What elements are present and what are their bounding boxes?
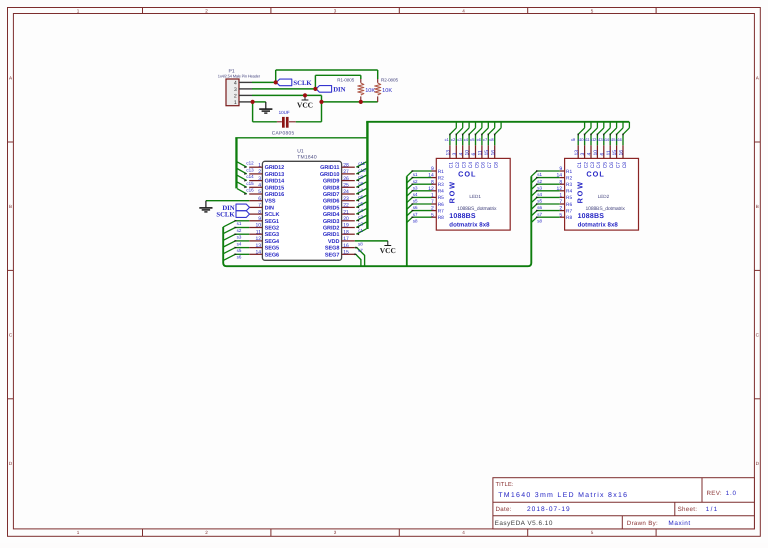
svg-text:VDD: VDD [328,239,340,245]
svg-text:GRID8: GRID8 [323,185,340,191]
svg-text:1.0: 1.0 [726,490,737,497]
svg-text:C4: C4 [468,162,474,169]
svg-text:5: 5 [258,189,261,195]
svg-text:1: 1 [77,530,80,535]
svg-text:3: 3 [334,9,337,14]
svg-text:c6: c6 [358,195,363,200]
svg-text:4: 4 [462,9,465,14]
svg-text:11: 11 [256,229,261,235]
svg-text:3: 3 [334,530,337,535]
svg-text:s6: s6 [413,205,418,210]
svg-text:GRID13: GRID13 [265,172,285,178]
svg-text:GRID10: GRID10 [320,172,340,178]
svg-text:GRID7: GRID7 [323,192,340,198]
svg-text:SCLK: SCLK [293,80,312,87]
svg-text:dotmatrix 8x8: dotmatrix 8x8 [578,221,619,228]
svg-text:11: 11 [478,150,484,155]
svg-text:14: 14 [557,173,563,179]
svg-text:s1: s1 [537,172,542,177]
svg-text:10K: 10K [382,88,392,94]
svg-text:Maxint: Maxint [668,520,690,527]
svg-text:R3: R3 [438,182,444,188]
svg-text:22: 22 [343,203,349,209]
svg-text:2: 2 [559,206,562,212]
svg-text:GRID11: GRID11 [320,165,339,171]
svg-text:C1: C1 [449,162,455,169]
svg-text:s1: s1 [413,172,418,177]
svg-text:SEG8: SEG8 [325,246,339,252]
svg-text:27: 27 [343,169,349,175]
svg-text:5: 5 [431,212,434,218]
svg-text:10: 10 [593,150,599,156]
svg-text:REV:: REV: [707,490,722,497]
svg-text:VCC: VCC [297,101,313,110]
svg-text:R8: R8 [438,215,444,221]
svg-text:1: 1 [77,9,80,14]
svg-text:13: 13 [446,150,452,156]
svg-text:R4: R4 [438,189,444,195]
svg-text:8: 8 [258,209,261,215]
svg-text:C5: C5 [474,162,480,169]
svg-text:28: 28 [343,162,349,168]
svg-text:16: 16 [343,243,349,249]
svg-text:20: 20 [343,216,349,222]
svg-text:5: 5 [591,9,594,14]
svg-text:R4: R4 [566,189,572,195]
svg-text:C8: C8 [622,162,628,169]
svg-text:C5: C5 [603,162,609,169]
svg-text:9: 9 [559,166,562,172]
svg-text:12: 12 [428,186,434,192]
svg-text:24: 24 [343,189,349,195]
svg-text:SCLK: SCLK [265,212,280,218]
svg-text:4: 4 [462,530,465,535]
svg-text:s5: s5 [413,199,418,204]
svg-text:4: 4 [258,183,261,189]
svg-text:GRID4: GRID4 [323,212,341,218]
svg-text:4: 4 [587,153,593,156]
svg-text:s2: s2 [537,179,542,184]
svg-text:2: 2 [234,93,237,99]
svg-text:10K: 10K [365,88,375,94]
svg-text:R2-0805: R2-0805 [381,77,398,82]
svg-text:25: 25 [343,183,349,189]
svg-text:LED1: LED1 [469,194,481,199]
svg-text:21: 21 [343,209,349,215]
svg-text:4: 4 [458,153,464,156]
svg-text:Date:: Date: [496,506,512,513]
svg-text:SEG2: SEG2 [265,226,279,232]
svg-text:16: 16 [619,150,625,156]
svg-text:7: 7 [258,203,261,209]
svg-text:C2: C2 [583,162,589,169]
svg-text:VSS: VSS [265,199,276,205]
svg-text:17: 17 [343,236,349,242]
svg-text:6: 6 [599,153,605,156]
svg-text:TM1640: TM1640 [297,154,317,160]
svg-text:R1-0805: R1-0805 [337,77,354,82]
svg-text:2: 2 [205,530,208,535]
svg-text:s6: s6 [537,205,542,210]
svg-text:R6: R6 [566,202,572,208]
svg-text:23: 23 [343,196,349,202]
svg-text:s3: s3 [413,185,418,190]
svg-text:3: 3 [258,176,261,182]
svg-text:SCLK: SCLK [216,212,235,219]
svg-text:6: 6 [258,196,261,202]
svg-text:s2: s2 [413,179,418,184]
svg-text:c7: c7 [358,188,363,193]
svg-text:VCC: VCC [380,246,396,255]
svg-text:c13: c13 [246,167,254,172]
svg-text:4: 4 [234,80,237,86]
svg-text:GRID14: GRID14 [265,179,286,185]
svg-text:TITLE:: TITLE: [496,482,514,488]
svg-text:1: 1 [559,193,562,199]
svg-text:2: 2 [205,9,208,14]
svg-text:GRID6: GRID6 [323,199,340,205]
svg-text:s4: s4 [413,192,418,197]
svg-text:1: 1 [431,193,434,199]
svg-text:B: B [9,204,12,209]
svg-text:c4: c4 [358,208,363,213]
svg-text:s7: s7 [358,248,363,253]
svg-text:8: 8 [431,179,434,185]
svg-text:s6: s6 [237,255,242,260]
svg-text:7: 7 [559,199,562,205]
svg-text:s4: s4 [537,192,542,197]
svg-text:c15: c15 [246,181,254,186]
svg-text:COL: COL [586,169,604,178]
svg-text:c12: c12 [246,161,254,166]
svg-text:Sheet:: Sheet: [678,506,698,513]
svg-text:3: 3 [234,87,237,93]
svg-text:12: 12 [557,186,563,192]
svg-text:c10: c10 [358,168,366,173]
svg-text:C6: C6 [609,162,615,169]
svg-text:5: 5 [559,212,562,218]
svg-text:C3: C3 [590,162,596,169]
svg-text:1088BS: 1088BS [578,213,605,220]
svg-text:10: 10 [465,150,471,156]
svg-text:3: 3 [452,153,458,156]
svg-text:15: 15 [343,250,349,256]
svg-text:s1: s1 [237,221,242,226]
svg-text:DIN: DIN [333,87,345,94]
svg-text:C7: C7 [487,162,493,169]
svg-text:R7: R7 [566,208,572,214]
svg-text:13: 13 [255,243,261,249]
svg-text:Drawn By:: Drawn By: [627,520,658,527]
svg-text:c2: c2 [358,221,363,226]
svg-text:c8: c8 [358,181,363,186]
svg-text:GRID15: GRID15 [265,185,285,191]
svg-text:s5: s5 [537,199,542,204]
svg-text:C8: C8 [494,162,500,169]
svg-text:1088BS_dotmatrix: 1088BS_dotmatrix [457,206,497,212]
svg-text:s2: s2 [237,228,242,233]
svg-text:3: 3 [580,153,586,156]
svg-text:c14: c14 [246,174,254,179]
svg-text:2: 2 [431,206,434,212]
svg-text:11: 11 [606,150,612,155]
svg-text:s8: s8 [537,218,542,223]
svg-text:C4: C4 [596,162,602,169]
svg-text:1: 1 [258,162,261,168]
svg-text:19: 19 [343,223,349,229]
svg-text:GRID9: GRID9 [323,179,340,185]
svg-text:1/1: 1/1 [706,506,719,513]
svg-text:9: 9 [258,216,261,222]
svg-text:5: 5 [591,530,594,535]
svg-text:C6: C6 [481,162,487,169]
svg-text:ROW: ROW [576,180,585,203]
svg-text:1088BS_dotmatrix: 1088BS_dotmatrix [586,206,626,212]
svg-text:s7: s7 [537,212,542,217]
svg-text:dotmatrix 8x8: dotmatrix 8x8 [449,221,490,228]
svg-text:EasyEDA V5.6.10: EasyEDA V5.6.10 [495,520,553,527]
svg-text:C1: C1 [577,162,583,169]
svg-text:SEG1: SEG1 [265,219,279,225]
svg-text:R1: R1 [438,169,444,175]
svg-text:R6: R6 [438,202,444,208]
svg-text:R8: R8 [566,215,572,221]
svg-text:16: 16 [490,150,496,156]
svg-text:7: 7 [431,199,434,205]
svg-text:R3: R3 [566,182,572,188]
svg-text:C3: C3 [462,162,468,169]
svg-text:GRID5: GRID5 [323,205,340,211]
svg-text:13: 13 [574,150,580,156]
svg-text:18: 18 [343,229,349,235]
svg-text:GRID16: GRID16 [265,192,285,198]
svg-text:1088BS: 1088BS [449,213,476,220]
svg-text:15: 15 [612,150,618,156]
svg-text:SEG3: SEG3 [265,232,279,238]
svg-text:10: 10 [255,223,261,229]
svg-text:SEG4: SEG4 [265,239,280,245]
svg-text:c5: c5 [358,201,363,206]
svg-text:2018-07-19: 2018-07-19 [527,506,571,513]
svg-text:GRID3: GRID3 [323,219,340,225]
svg-text:1: 1 [234,100,237,106]
svg-text:R5: R5 [566,195,572,201]
svg-text:c16: c16 [246,188,254,193]
svg-text:s8: s8 [413,218,418,223]
svg-text:14: 14 [255,250,261,256]
svg-text:R1: R1 [566,169,572,175]
svg-text:CAP0805: CAP0805 [272,130,295,136]
svg-text:26: 26 [343,176,349,182]
svg-text:GRID12: GRID12 [265,165,285,171]
svg-text:6: 6 [471,153,477,156]
svg-text:c11: c11 [358,161,365,166]
svg-text:c9: c9 [358,175,363,180]
svg-text:GRID2: GRID2 [323,226,340,232]
svg-text:SEG7: SEG7 [325,252,339,258]
svg-text:SEG5: SEG5 [265,246,279,252]
svg-text:s4: s4 [237,241,242,246]
svg-text:8: 8 [559,179,562,185]
svg-text:c3: c3 [358,215,363,220]
svg-text:COL: COL [458,169,476,178]
svg-text:ROW: ROW [447,180,456,203]
svg-text:DIN: DIN [265,205,274,211]
svg-text:12: 12 [255,236,261,242]
svg-text:2: 2 [258,169,261,175]
svg-text:s8: s8 [358,241,363,246]
svg-text:c1: c1 [358,228,363,233]
svg-text:R7: R7 [438,208,444,214]
svg-text:LED2: LED2 [598,194,610,199]
svg-text:10UF: 10UF [279,110,290,115]
svg-text:s7: s7 [413,212,418,217]
svg-text:s5: s5 [237,248,242,253]
svg-text:TM1640 3mm LED Matrix 8x16: TM1640 3mm LED Matrix 8x16 [498,491,628,499]
svg-text:C2: C2 [455,162,461,169]
svg-text:R5: R5 [438,195,444,201]
svg-text:14: 14 [428,173,434,179]
svg-text:R2: R2 [438,175,444,181]
svg-text:C7: C7 [615,162,621,169]
svg-text:s3: s3 [537,185,542,190]
svg-text:GRID1: GRID1 [323,232,340,238]
svg-text:s3: s3 [237,235,242,240]
svg-text:1x4/2.54 Male Pin Header: 1x4/2.54 Male Pin Header [218,74,261,79]
svg-text:R2: R2 [566,175,572,181]
svg-text:9: 9 [431,166,434,172]
svg-text:15: 15 [484,150,490,156]
svg-text:B: B [756,204,759,209]
svg-text:SEG6: SEG6 [265,252,279,258]
